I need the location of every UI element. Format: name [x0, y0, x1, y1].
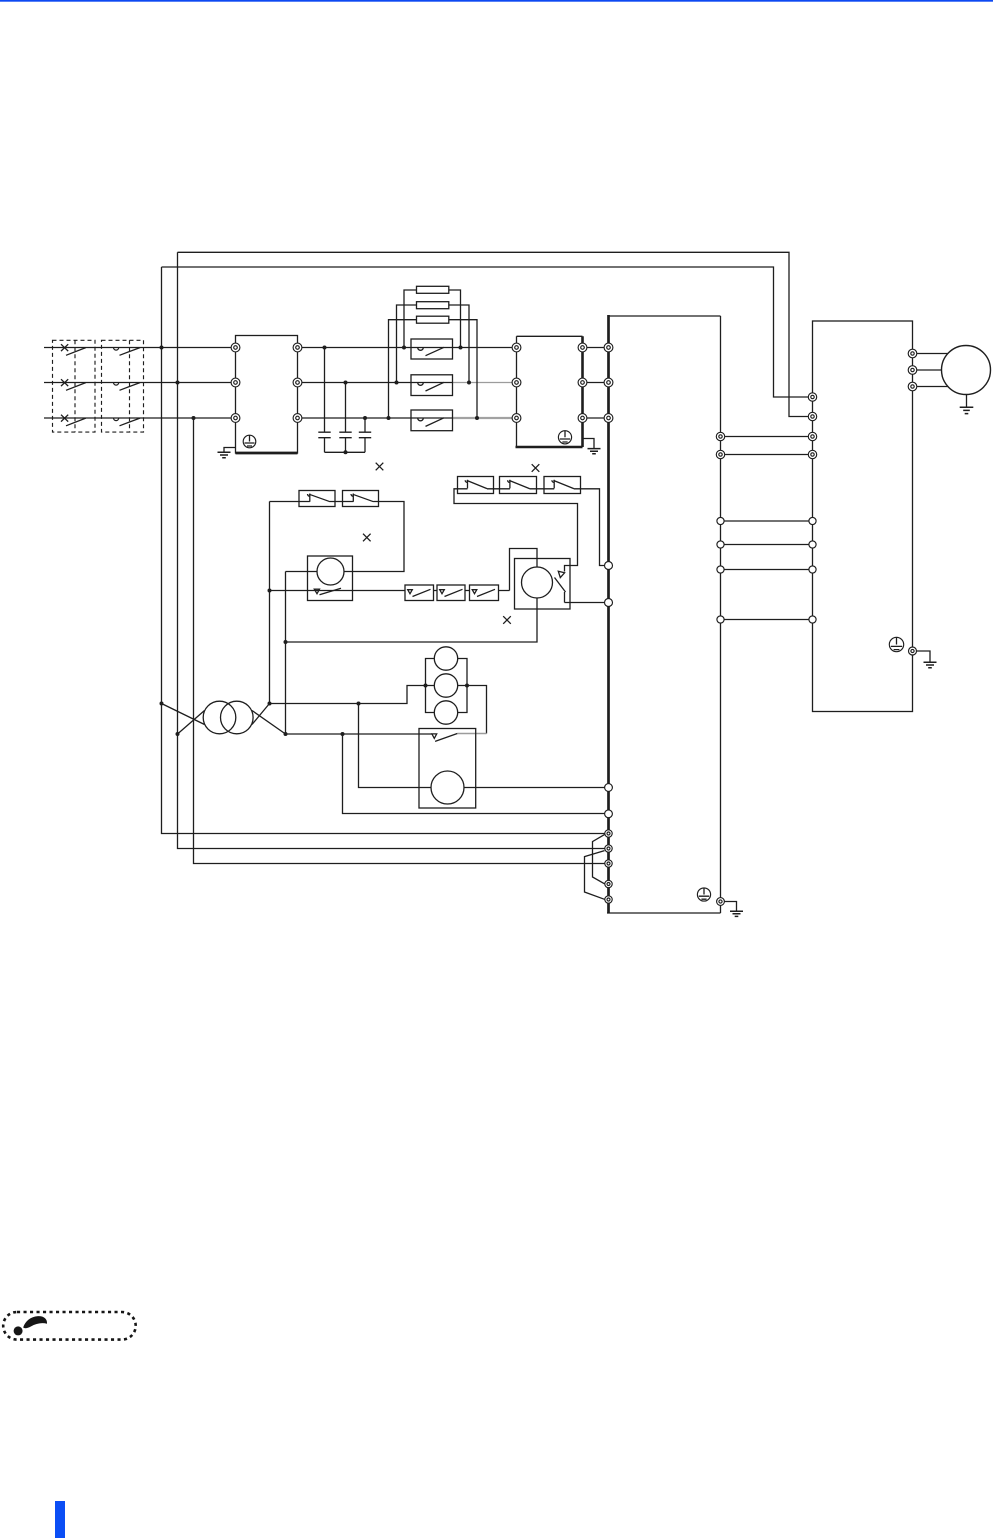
- wire transformer secondary lower feed: [286, 733, 432, 735]
- control box earth symbol: [924, 662, 937, 668]
- header rule (blue): [0, 0, 993, 2]
- contactor contact blade L3: [120, 418, 141, 426]
- wire drive to right box link 2: [721, 454, 813, 456]
- MC2 terminals right: [578, 343, 587, 352]
- timer changeover lower notch: [564, 592, 566, 603]
- NC series 2 symbol: [500, 480, 537, 489]
- junction dots: [160, 346, 480, 737]
- wire aux chain to timer coil top: [510, 549, 538, 591]
- contactor mid dashed line: [129, 340, 131, 432]
- fan switch arrow: [432, 734, 437, 739]
- wire left control vertical: [269, 502, 271, 704]
- aux contact 3 symbol: [472, 589, 495, 596]
- wire drive to right box link 3: [721, 520, 813, 522]
- contactor dashed enclosure: [102, 340, 144, 432]
- contactor contact blade L1: [120, 348, 141, 356]
- timer changeover blade: [555, 578, 566, 593]
- protective earth circle symbol: control box: [889, 637, 903, 651]
- drive PE terminal: [717, 898, 725, 906]
- note icon swoosh: [23, 1316, 47, 1328]
- resistor R1 body: [417, 286, 449, 293]
- X mark near timer: [503, 616, 511, 624]
- timer changeover arrow: [558, 571, 564, 577]
- capacitor C3 lead: [364, 418, 366, 452]
- aux contact 1 symbol: [408, 589, 431, 596]
- transformer right cross wires: [252, 704, 286, 735]
- wire phase L1 input: [44, 347, 236, 349]
- wire fan line to drive: [359, 704, 609, 788]
- control box right terminals (motor): [908, 349, 917, 358]
- transformer left cross wires: [162, 704, 205, 735]
- lamp bracket right: [458, 659, 468, 713]
- wire motor lead V: [913, 369, 943, 371]
- thermal contacts pair box A: [299, 491, 335, 507]
- MC2 terminals left: [512, 343, 521, 352]
- contactor coil MC1 box: [308, 556, 353, 601]
- fan motor circle: [431, 771, 464, 804]
- drive input terminals R S T: [604, 343, 613, 352]
- filter earth symbol: [218, 452, 231, 458]
- pilot lamp PL2 circle: [434, 674, 457, 697]
- NC series box 3: [544, 477, 581, 494]
- resistor R3 body: [417, 316, 449, 323]
- pilot lamp PL3 circle: [434, 701, 457, 724]
- breaker pole X mark L2: [61, 379, 68, 386]
- filter terminals left: [231, 343, 240, 352]
- protective earth circle symbol: MC2: [558, 431, 571, 444]
- drive bottom jog link A: [593, 835, 605, 884]
- control box left terminals: [808, 393, 816, 401]
- drive PE earth wire: [721, 902, 737, 911]
- wire phase W bypass segment (gray): [453, 417, 517, 419]
- wire motor lead U: [913, 353, 949, 355]
- drive bottom jog link B: [585, 851, 605, 900]
- wire drive to right box link 1: [721, 436, 813, 438]
- wire NC series left loop to timer common: [454, 489, 578, 566]
- motor M circle: [942, 346, 991, 395]
- motor earth symbol: [960, 407, 974, 413]
- X mark above NC series: [532, 464, 540, 472]
- MC1 switch blade: [320, 588, 342, 595]
- drive bottom terminal group: [605, 830, 612, 837]
- bypass relay K3 box: [411, 410, 453, 431]
- thermal contacts pair box B: [343, 491, 379, 507]
- wire timer output to drive: [565, 602, 609, 604]
- wire lamp return: [467, 686, 487, 734]
- wire phase V bypass segment (gray): [453, 382, 517, 384]
- control box (right) outline: [813, 321, 913, 712]
- wire coil left branch: [286, 572, 318, 735]
- contactor contact arc L1: [114, 348, 119, 351]
- X mark near coil loop: [363, 534, 371, 542]
- noise filter bottom thick edge: [236, 452, 298, 455]
- breaker pole blade L1: [66, 348, 86, 356]
- wire phase U after filter: [298, 347, 517, 349]
- wire MC2 to drive terminal R: [583, 347, 609, 349]
- NC series box 2: [500, 477, 537, 494]
- magnetic contactor block MC2 outline: [517, 336, 583, 447]
- timer relay box: [515, 559, 571, 610]
- wire MC2 to drive terminal S: [583, 382, 609, 384]
- protective earth circle symbol: drive: [697, 888, 710, 901]
- protective earth circle symbol: filter: [243, 431, 904, 901]
- fan switch blade: [435, 734, 457, 742]
- wire MC2 to drive terminal T: [583, 417, 609, 419]
- note icon dot: [14, 1326, 23, 1335]
- note badge dashed stadium: [3, 1312, 136, 1340]
- capacitor C2 lead: [345, 383, 347, 453]
- drive control terminals left mid: [605, 562, 613, 570]
- bypass relay K1 contact: [418, 347, 444, 355]
- control box PE terminal: [909, 647, 917, 655]
- MC2 right thick edge: [581, 336, 584, 447]
- drive unit bottom edge: [607, 912, 721, 914]
- capacitor C1 plates: [318, 432, 330, 438]
- aux contact 2 symbol: [440, 589, 463, 596]
- wire phase W after filter: [298, 417, 453, 419]
- wire phase L3 input: [44, 417, 236, 419]
- MC2 bottom thick edge: [516, 446, 583, 449]
- MC1 switch arrow: [314, 589, 319, 594]
- wire lamp feed: [270, 686, 426, 704]
- resistor R3 loop wires: [389, 320, 478, 418]
- NC series 3 symbol: [544, 480, 581, 489]
- MC2 earth wire: [583, 439, 595, 449]
- breaker MCCB dashed enclosure: [53, 340, 96, 432]
- contactor contact blade L2: [120, 383, 141, 391]
- capacitor C1 lead: [324, 348, 326, 453]
- wire lamp return gray segment: [457, 733, 486, 735]
- wire left vertical phase1 feed down to bottom line: [162, 267, 606, 834]
- capacitor ground bus: [325, 451, 366, 453]
- filter earth wire: [224, 448, 236, 452]
- bypass relay K3 contact: [418, 418, 444, 427]
- drive unit left thick edge: [607, 315, 610, 913]
- wire drive to right box link 4: [721, 544, 813, 546]
- bypass relay K1 box: [411, 339, 453, 359]
- capacitor C3 plates: [359, 432, 371, 438]
- resistor R2 loop wires: [397, 305, 470, 383]
- drive terminals fan / return: [605, 784, 613, 792]
- NC series 1 symbol: [458, 480, 494, 489]
- contactor contact arc L3: [114, 418, 119, 421]
- aux contact box 3: [470, 585, 499, 601]
- drive right edge terminals: [716, 432, 724, 440]
- pilot lamp PL1 circle: [434, 647, 457, 670]
- wire motor lead W: [913, 386, 949, 388]
- contactor coil MC1 circle: [317, 558, 344, 585]
- capacitor C2 plates: [339, 432, 351, 438]
- resistor R2 body: [417, 302, 449, 309]
- transformer T1 secondary circle: [221, 701, 254, 734]
- footer page marker bar (blue): [55, 1501, 65, 1538]
- bypass relay K2 contact: [418, 382, 444, 391]
- wire NC series links: [494, 488, 545, 490]
- fan unit box: [419, 729, 476, 809]
- wire timer coil bottom return: [286, 598, 538, 642]
- drive unit box top edge: [609, 315, 721, 317]
- noise filter box: [236, 336, 298, 454]
- breaker pole X mark L1: [61, 344, 68, 351]
- MC2 earth symbol: [588, 449, 601, 454]
- wire phase V after filter: [298, 382, 453, 384]
- wire NC series right to drive terminal: [581, 489, 609, 566]
- timer changeover notch: [565, 566, 571, 572]
- breaker pole X mark L3: [61, 415, 68, 422]
- X mark near capacitor bank: [376, 463, 384, 471]
- resistor R1 loop wires: [404, 290, 461, 348]
- wire drive to right box link 5: [721, 569, 813, 571]
- thermal pair A contact symbol: [299, 494, 335, 502]
- aux contact box 1: [405, 585, 434, 601]
- wire control rung (coil switch line): [270, 590, 510, 592]
- breaker pole blade L2: [66, 383, 86, 391]
- wire control return to drive (line 813): [343, 734, 609, 814]
- timer coil circle: [522, 567, 553, 598]
- breaker pole blade L3: [66, 418, 86, 426]
- drive unit right edge: [720, 316, 722, 913]
- wire top loop lower (phase1 feed to right box): [162, 267, 813, 397]
- NC series box 1: [458, 477, 494, 494]
- wire left vertical phase2 feed down to bottom line: [178, 252, 606, 848]
- aux contact box 2: [437, 585, 465, 601]
- wire top loop upper (phase2 feed to right box): [178, 252, 813, 416]
- control box PE earth wire: [913, 651, 931, 662]
- wire thermal pair to coil loop: [344, 502, 404, 572]
- wire phase L2 input: [44, 382, 236, 384]
- wire left vertical phase3 feed down to bottom line: [194, 418, 606, 864]
- filter terminals right: [293, 343, 302, 352]
- terminal circles: [231, 343, 917, 905]
- drive earth symbol: [730, 911, 743, 916]
- wire thermal pair series: [270, 501, 343, 503]
- bypass relay K2 box: [411, 375, 453, 396]
- motor earth stem: [966, 393, 968, 407]
- breaker MCCB mid dashed line: [74, 340, 76, 432]
- thermal pair B contact symbol: [343, 494, 379, 502]
- wire drive to right box link 6: [721, 619, 813, 621]
- lamp bracket left: [426, 659, 435, 713]
- contactor contact arc L2: [114, 383, 119, 386]
- transformer T1 primary circle: [203, 701, 236, 734]
